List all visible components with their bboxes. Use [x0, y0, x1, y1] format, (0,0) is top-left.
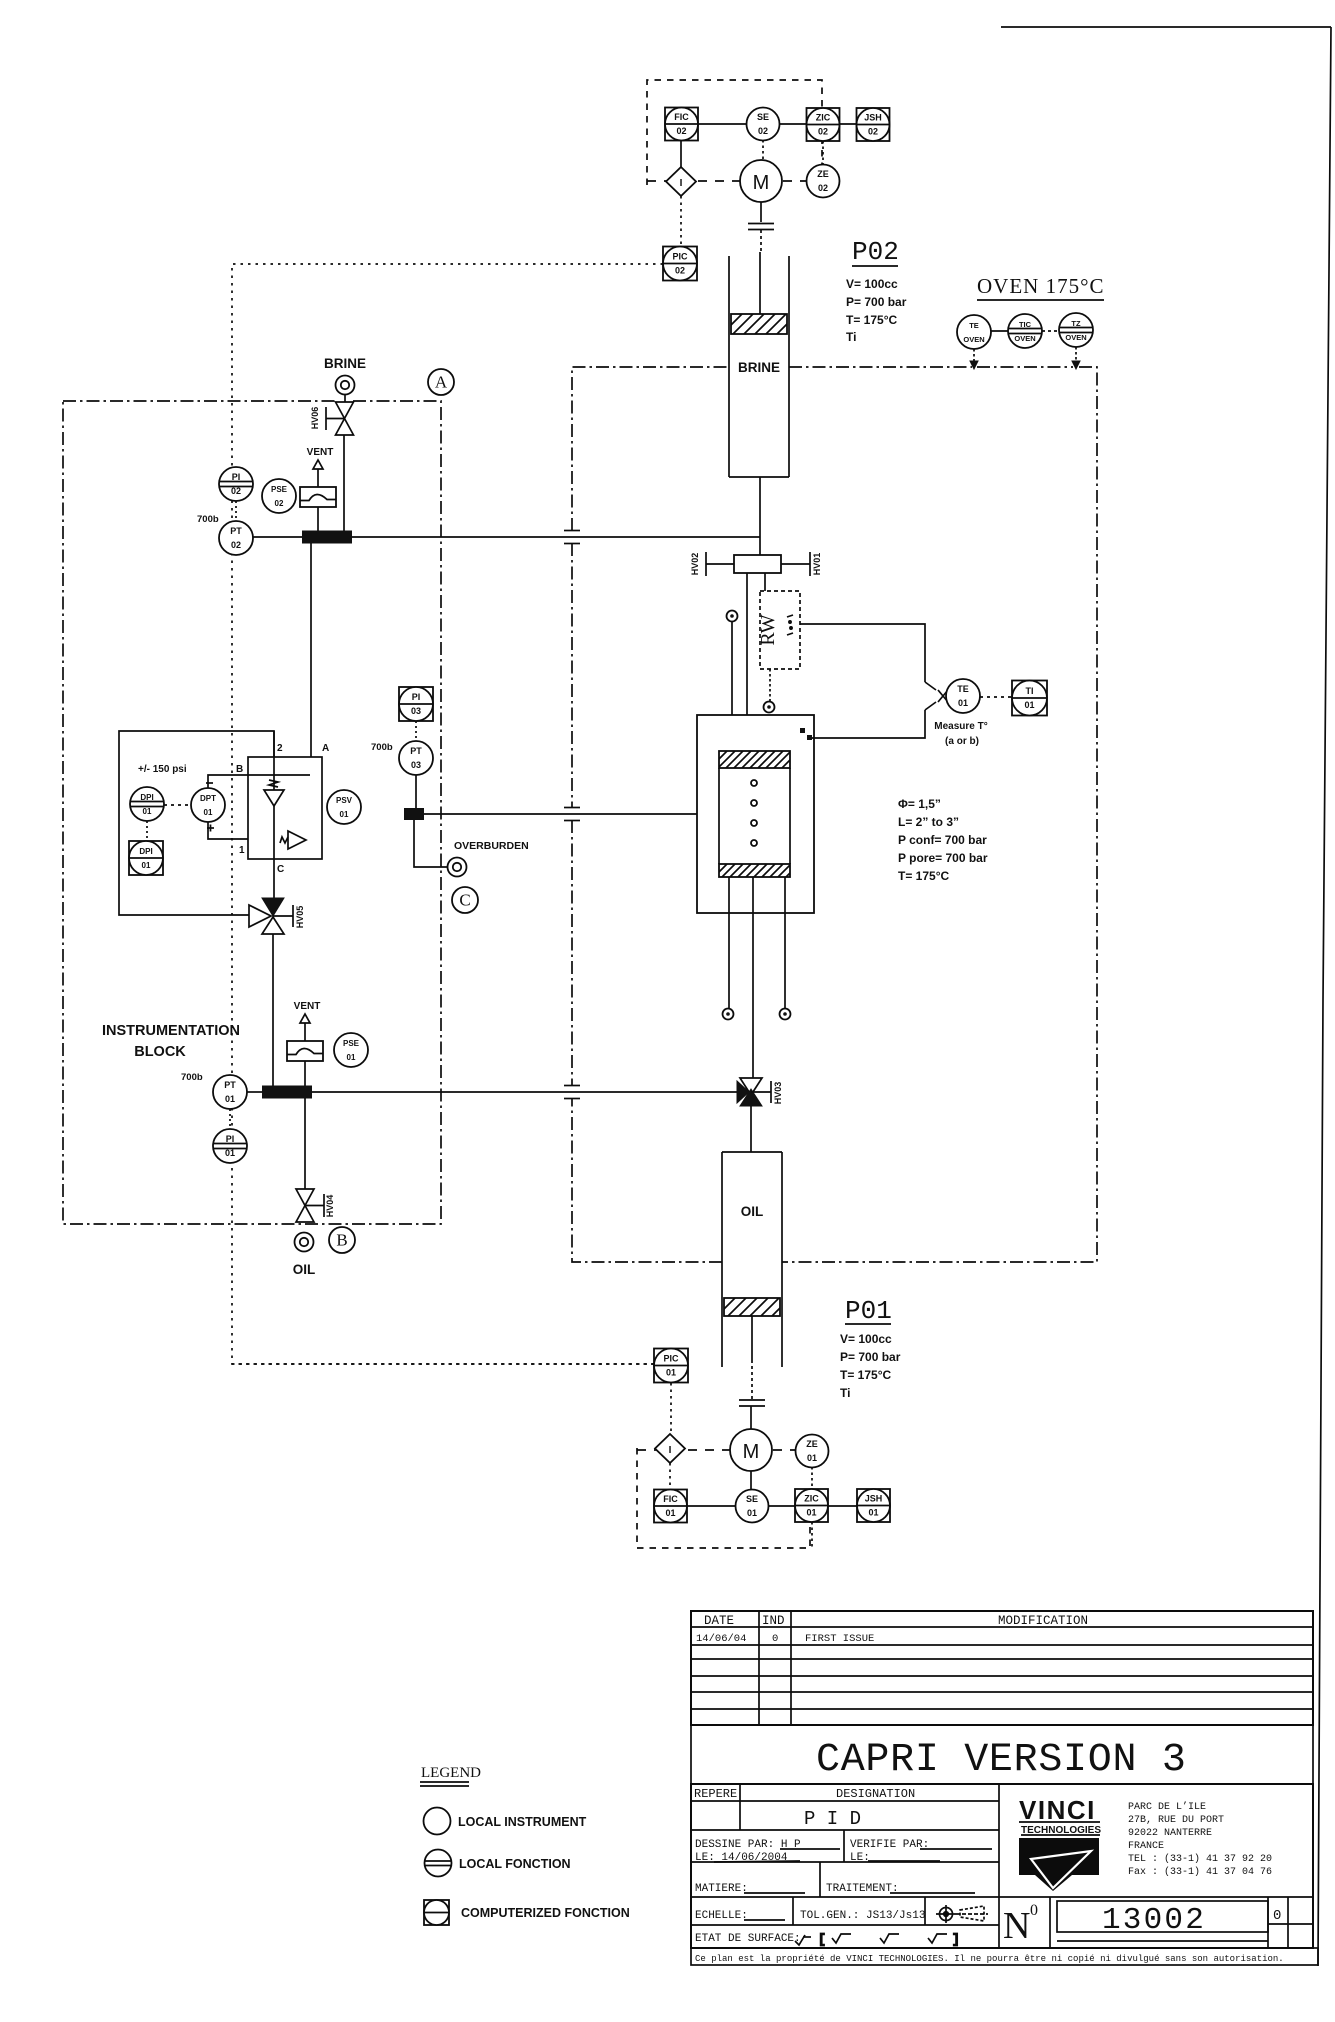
svg-text:02: 02: [231, 486, 241, 496]
svg-text:01: 01: [747, 1508, 757, 1518]
underline P02: [852, 265, 898, 267]
instrumentation block boundary (dash-dot): [63, 401, 441, 1224]
svg-text:PI: PI: [226, 1134, 235, 1144]
wire PSE02 disc to brine manifold: [317, 507, 319, 531]
wire core bottom middle to HV03: [752, 877, 754, 1078]
svg-text:M: M: [753, 172, 770, 194]
svg-text:OVEN 175°C: OVEN 175°C: [977, 274, 1104, 298]
svg-text:ECHELLE:: ECHELLE:: [695, 1910, 748, 1922]
interlock diamond I (P01): [655, 1434, 685, 1463]
property note row: [691, 1948, 1318, 1965]
wire PIC01 dotted to computer boundary: [232, 1363, 654, 1365]
piston rod P01: [751, 1316, 753, 1360]
svg-text:BLOCK: BLOCK: [134, 1044, 186, 1060]
instrument PT 02: [219, 521, 253, 555]
svg-text:TI: TI: [1026, 686, 1034, 696]
instrument ZE 02: [807, 165, 840, 198]
svg-text:]: ]: [952, 1932, 960, 1947]
interlock diamond I (P02): [666, 167, 696, 196]
svg-text:DATE: DATE: [704, 1614, 734, 1628]
handle HV01: [781, 552, 810, 576]
wire C port to HV05: [273, 859, 275, 898]
connector BRINE inlet: [336, 376, 355, 395]
thermo connector b below core: [780, 1009, 791, 1020]
svg-text:PT: PT: [230, 526, 242, 536]
svg-text:TEL : (33-1) 41 37 92 20: TEL : (33-1) 41 37 92 20: [1128, 1853, 1272, 1865]
svg-text:13002: 13002: [1102, 1903, 1206, 1938]
plus sign DPT01: [207, 825, 214, 832]
instrument PT 03: [399, 741, 433, 775]
instrument ZIC 02: [807, 108, 840, 141]
svg-text:P= 700 bar: P= 700 bar: [846, 295, 907, 309]
surface finish check marks: [795, 1932, 960, 1947]
svg-text:Ti: Ti: [840, 1386, 850, 1400]
svg-text:ETAT DE SURFACE:: ETAT DE SURFACE:: [695, 1933, 801, 1945]
svg-text:V= 100cc: V= 100cc: [840, 1332, 892, 1346]
svg-text:B: B: [336, 1231, 347, 1250]
svg-text:I: I: [669, 1445, 672, 1456]
instrument JSH 02: [857, 108, 890, 141]
wire diamond-M-ZE01 dashed line: [637, 1449, 796, 1451]
svg-text:02: 02: [675, 266, 685, 276]
svg-text:INSTRUMENTATION: INSTRUMENTATION: [102, 1023, 240, 1039]
VINCI address: [1128, 1801, 1272, 1878]
instrument SE 01: [736, 1490, 769, 1523]
svg-text:PT: PT: [224, 1080, 236, 1090]
wire thermo connector to core top: [731, 622, 733, 753]
page border right: [1318, 27, 1331, 1966]
minus sign DPT01: [206, 782, 213, 784]
svg-text:01: 01: [1024, 700, 1034, 710]
instrument PI 03: [399, 687, 433, 721]
instrument TIC OVEN: [1008, 314, 1042, 348]
revision row first issue: [696, 1633, 874, 1645]
differential pressure sub-block boundary: [119, 731, 274, 915]
svg-text:ZE: ZE: [806, 1439, 818, 1449]
motor M (P01): [730, 1429, 772, 1471]
svg-text:LEGEND: LEGEND: [421, 1765, 481, 1781]
rupture disc PSE02: [300, 487, 336, 507]
oven boundary box (dash-dot): [572, 367, 1097, 1262]
svg-text:PSE: PSE: [343, 1039, 360, 1048]
svg-text:92022 NANTERRE: 92022 NANTERRE: [1128, 1828, 1212, 1839]
core plug top cap (hatched): [702, 751, 815, 768]
piston P02 (hatched): [711, 314, 808, 334]
manifold overburden (PT03): [404, 808, 424, 820]
svg-text:700b: 700b: [197, 514, 219, 525]
page border top: [1001, 26, 1331, 28]
svg-text:M: M: [743, 1441, 760, 1463]
svg-text:P= 700 bar: P= 700 bar: [840, 1350, 901, 1364]
revision table headers: [704, 1614, 1088, 1628]
svg-text:REPERE: REPERE: [694, 1787, 737, 1801]
handle HV04: [305, 1194, 324, 1217]
svg-text:TRAITEMENT:: TRAITEMENT:: [826, 1883, 899, 1895]
wire PT01 to PI01 dotted: [229, 1109, 231, 1129]
wire FIC02 to interlock diamond: [680, 124, 682, 168]
svg-text:01: 01: [347, 1053, 356, 1062]
instrument PI 02: [219, 467, 253, 501]
wire diamond to FIC01 dotted: [669, 1463, 671, 1490]
thermo connector below RW: [764, 702, 775, 713]
svg-text:JSH: JSH: [864, 113, 882, 123]
svg-text:IND: IND: [762, 1614, 785, 1628]
wire FIC02-SE02-ZIC02-JSH02 signal line: [681, 123, 856, 125]
wire HV05 down to oil manifold: [272, 934, 274, 1086]
oven boundary crossing marker at overburden line: [564, 808, 580, 821]
svg-text:RW: RW: [757, 614, 779, 645]
svg-text:VERIFIE PAR:: VERIFIE PAR:: [850, 1839, 929, 1851]
svg-text:I: I: [680, 178, 683, 189]
valve manifold box (check valves): [248, 757, 322, 859]
label Measure T (a or b): [934, 721, 987, 747]
svg-text:FIRST ISSUE: FIRST ISSUE: [805, 1633, 874, 1645]
svg-text:OVEN: OVEN: [963, 335, 984, 344]
instrument PIC 02: [663, 247, 697, 281]
svg-text:Ti: Ti: [846, 330, 856, 344]
connector OIL inlet: [295, 1233, 314, 1252]
port b marker: [807, 735, 812, 740]
specs P02: [846, 277, 907, 344]
svg-text:C: C: [277, 864, 284, 875]
N deg box: [999, 1897, 1313, 1948]
svg-text:ZE: ZE: [817, 169, 829, 179]
wire oil manifold to HV03: [312, 1091, 737, 1093]
port a marker: [800, 728, 805, 733]
wire PIC01 to interlock diamond dotted: [670, 1383, 672, 1434]
node A circle: [428, 369, 454, 395]
svg-text:PI: PI: [412, 692, 421, 702]
svg-text:P conf= 700 bar: P conf= 700 bar: [898, 833, 987, 847]
svg-text:HV06: HV06: [310, 407, 320, 430]
svg-text:TE: TE: [957, 684, 969, 694]
computer link boundary (dotted box): [232, 264, 663, 1364]
instrument PSE 01: [334, 1033, 368, 1067]
piston rod P02 (dotted): [760, 230, 762, 252]
wire port 2 line: [273, 731, 275, 790]
instrument PSV 01: [327, 790, 361, 824]
wire port A line: [310, 543, 312, 757]
wire ZIC02 to ZE02 (dotted): [822, 141, 824, 166]
svg-text:CAPRI VERSION 3: CAPRI VERSION 3: [816, 1738, 1187, 1783]
underlines DESSINE row: [714, 1849, 992, 1862]
piston rod P01 dotted: [751, 1360, 753, 1399]
wire DPT01 1 port: [208, 822, 248, 839]
svg-text:ZIC: ZIC: [804, 1494, 819, 1504]
svg-text:BRINE: BRINE: [738, 360, 780, 375]
svg-text:Φ= 1,5”: Φ= 1,5”: [898, 797, 941, 811]
svg-text:27B, RUE DU PORT: 27B, RUE DU PORT: [1128, 1815, 1224, 1826]
wire port b to TE01 selector: [812, 710, 925, 738]
instrument DPI 01 (computerized): [129, 841, 163, 875]
svg-text:HV02: HV02: [690, 553, 700, 576]
specs P01: [840, 1332, 901, 1400]
wire brine manifold to brine cylinder line: [352, 536, 760, 538]
svg-text:TZ: TZ: [1071, 319, 1081, 328]
node C circle: [452, 887, 478, 913]
svg-text:OIL: OIL: [741, 1204, 764, 1219]
svg-text:0: 0: [1030, 1902, 1038, 1919]
svg-text:700b: 700b: [371, 742, 393, 753]
svg-text:01: 01: [666, 1368, 676, 1378]
svg-text:02: 02: [676, 126, 686, 136]
svg-text:OIL: OIL: [293, 1262, 316, 1277]
connector OVERBURDEN: [448, 858, 467, 877]
svg-text:Fax : (33-1) 41 37 04 76: Fax : (33-1) 41 37 04 76: [1128, 1866, 1272, 1878]
svg-text:P02: P02: [852, 237, 899, 267]
projection symbol: [936, 1905, 988, 1923]
wire overburden manifold down to connector: [414, 820, 448, 867]
svg-text:SE: SE: [746, 1494, 758, 1504]
svg-text:L= 2” to 3”: L= 2” to 3”: [898, 815, 959, 829]
underline LEGEND: [420, 1782, 469, 1786]
instrument TE 01: [946, 679, 980, 713]
wire HV03 to OIL cylinder: [750, 1106, 752, 1152]
wire DPT01 B port: [208, 775, 310, 788]
oven boundary crossing marker at brine line: [564, 531, 580, 544]
arrow TZ OVEN to oven boundary: [1072, 347, 1080, 369]
wire ZIC01 down dotted: [811, 1522, 813, 1548]
vent arrow (oil): [300, 1014, 310, 1023]
motor coupling P02 (capacitor symbol): [748, 224, 774, 230]
svg-text:P pore= 700 bar: P pore= 700 bar: [898, 851, 988, 865]
RW electrode marks: [787, 615, 793, 635]
instrument TZ OVEN: [1059, 313, 1093, 347]
svg-text:HV03: HV03: [773, 1082, 783, 1105]
svg-text:01: 01: [225, 1094, 235, 1104]
wire diamond-M-ZE02 dashed line: [647, 180, 806, 182]
svg-text:PIC: PIC: [663, 1354, 679, 1364]
wire DPI01 to DPI01 square dotted: [146, 821, 148, 841]
thermo connector a below core: [723, 1009, 734, 1020]
svg-text:01: 01: [340, 810, 349, 819]
pump P01 control dashed box: [637, 1448, 810, 1548]
svg-text:Measure T°: Measure T°: [934, 721, 987, 732]
row ECHELLE/TOL.GEN: [695, 1910, 925, 1922]
wire oil manifold down to HV04: [304, 1098, 306, 1189]
svg-text:JSH: JSH: [865, 1494, 883, 1504]
svg-text:LOCAL FONCTION: LOCAL FONCTION: [459, 1857, 571, 1871]
row MATIERE/TRAITEMENT: [695, 1883, 899, 1895]
svg-text:1: 1: [239, 845, 245, 856]
wire valve block to RW: [764, 573, 766, 591]
svg-text:OVERBURDEN: OVERBURDEN: [454, 840, 529, 852]
vent arrow (brine): [313, 460, 323, 469]
svg-text:01: 01: [868, 1508, 878, 1518]
underline P01: [845, 1323, 891, 1325]
handle HV03: [751, 1081, 771, 1103]
svg-text:01: 01: [665, 1508, 675, 1518]
wire core bottom right to connector b: [784, 877, 786, 1008]
wire TE OVEN to TIC OVEN dash: [991, 330, 1008, 332]
arrow TE OVEN to oven boundary: [970, 349, 978, 369]
wire PT01 to oil manifold: [247, 1091, 262, 1093]
svg-text:02: 02: [818, 183, 828, 193]
wire motor M02 to coupling: [760, 202, 762, 222]
wire core bottom left to connector a: [728, 877, 730, 1008]
svg-text:VENT: VENT: [307, 447, 334, 458]
svg-text:Ce plan est la propriété de VI: Ce plan est la propriété de VINCI TECHNO…: [695, 1954, 1284, 1964]
svg-text:T= 175°C: T= 175°C: [840, 1368, 891, 1382]
wire HV06 to brine manifold: [343, 435, 345, 531]
svg-text:VINCI: VINCI: [1019, 1795, 1096, 1825]
wire valve block to core holder (brine side): [746, 573, 748, 753]
svg-text:OVEN: OVEN: [1065, 333, 1086, 342]
svg-text:FRANCE: FRANCE: [1128, 1841, 1164, 1852]
wire coupling to motor M01: [750, 1406, 752, 1429]
svg-text:01: 01: [204, 808, 213, 817]
svg-text:TE: TE: [969, 321, 979, 330]
svg-text:A: A: [322, 743, 329, 754]
wire TIC OVEN to TZ OVEN dash: [1042, 330, 1059, 332]
manifold brine (PT02): [302, 531, 352, 544]
instrument ZE 01: [796, 1435, 829, 1468]
svg-text:DESIGNATION: DESIGNATION: [836, 1787, 915, 1801]
svg-text:[: [: [818, 1932, 826, 1947]
svg-text:02: 02: [868, 127, 878, 137]
svg-text:01: 01: [807, 1453, 817, 1463]
label INSTRUMENTATION BLOCK: [102, 1023, 240, 1060]
svg-text:SE: SE: [757, 112, 769, 122]
svg-text:PARC DE L’ILE: PARC DE L’ILE: [1128, 1801, 1206, 1813]
instrument PIC 01: [654, 1349, 688, 1383]
instrument DPT 01: [191, 788, 225, 822]
wire interlock diamond to PIC02 (dotted): [680, 196, 682, 247]
instrument ZIC 01: [795, 1489, 828, 1522]
instrument SE 02: [747, 108, 780, 141]
svg-text:02: 02: [275, 499, 284, 508]
svg-text:PSV: PSV: [336, 796, 353, 805]
oven boundary crossing marker at oil line: [564, 1086, 580, 1099]
handle HV06: [326, 407, 345, 430]
handle HV02: [706, 552, 734, 576]
wire PT03 to overburden manifold: [415, 775, 417, 808]
wire PSE01 disc to oil manifold: [304, 1061, 306, 1086]
svg-text:01: 01: [143, 807, 152, 816]
wire DPI01-DPT01 dash: [164, 804, 191, 806]
manifold oil (PT01): [262, 1086, 312, 1099]
instrument FIC 01: [654, 1490, 687, 1523]
svg-text:DPI: DPI: [139, 847, 152, 856]
selector diagonals to TE01: [925, 682, 948, 710]
wire RW right to TE01 selector: [800, 624, 925, 682]
wire PI02 to PT02 dotted: [235, 501, 237, 521]
wire PI03 to PT03 dotted: [415, 721, 417, 741]
handle HV05: [273, 905, 293, 927]
svg-text:HV01: HV01: [812, 553, 822, 576]
labels REPERE DESIGNATION: [694, 1787, 915, 1801]
valve HV06: [336, 402, 354, 435]
svg-text:HV05: HV05: [295, 906, 305, 929]
relief valve triangle (right): [288, 831, 306, 849]
instrument PT 01: [213, 1075, 247, 1109]
svg-text:A: A: [435, 373, 448, 392]
svg-text:P01: P01: [845, 1296, 892, 1326]
thermo connector above core (brine line): [727, 611, 738, 622]
pump cylinder P02 BRINE: [729, 256, 789, 477]
check valve down triangle: [264, 790, 284, 806]
wire M01 to SE01 dotted: [750, 1471, 752, 1490]
svg-text:FIC: FIC: [674, 112, 689, 122]
piston P01 (hatched): [706, 1298, 801, 1316]
legend local instrument symbol: [424, 1808, 451, 1835]
wire TE01 to TI01 dash: [980, 696, 1012, 698]
svg-text:PI: PI: [232, 472, 241, 482]
svg-text:(a or b): (a or b): [945, 736, 979, 747]
svg-text:03: 03: [411, 760, 421, 770]
wire PT02 to brine manifold: [253, 536, 302, 538]
motor M (P02): [740, 160, 782, 202]
title band CAPRI VERSION 3: [691, 1725, 1313, 1784]
svg-text:LE:: LE:: [850, 1852, 870, 1864]
svg-text:FIC: FIC: [663, 1494, 678, 1504]
svg-text:01: 01: [806, 1508, 816, 1518]
instrument PSE 02: [262, 479, 296, 513]
svg-text:C: C: [459, 891, 470, 910]
piston rod P02: [759, 252, 761, 315]
svg-text:700b: 700b: [181, 1072, 203, 1083]
instrument TI 01: [1012, 681, 1047, 716]
wire ZE01 to ZIC01 dotted: [811, 1467, 813, 1489]
designation table: [691, 1784, 1313, 1948]
svg-text:MATIERE:: MATIERE:: [695, 1883, 748, 1895]
wire BRINE connector to HV06: [344, 394, 346, 402]
wire vent arrow to PSE02 disc: [317, 469, 319, 488]
svg-text:PT: PT: [410, 746, 422, 756]
svg-text:01: 01: [225, 1148, 235, 1158]
svg-text:02: 02: [758, 126, 768, 136]
VINCI logo black box with triangle: [1019, 1838, 1099, 1891]
svg-text:02: 02: [818, 127, 828, 137]
wire BRINE cylinder to valve block: [759, 477, 761, 555]
svg-text:BRINE: BRINE: [324, 356, 366, 371]
rupture disc PSE01: [287, 1041, 323, 1061]
revision table: [691, 1611, 1313, 1725]
valve HV05 (3-way): [249, 898, 284, 934]
svg-text:2: 2: [277, 743, 283, 754]
instrument FIC 02: [665, 108, 698, 141]
svg-text:TIC: TIC: [1019, 320, 1032, 329]
svg-text:V= 100cc: V= 100cc: [846, 277, 898, 291]
svg-text:VENT: VENT: [294, 1001, 321, 1012]
underline OVEN: [977, 299, 1104, 301]
svg-text:PIC: PIC: [672, 252, 688, 262]
svg-text:03: 03: [411, 706, 421, 716]
svg-text:01: 01: [142, 861, 151, 870]
svg-text:01: 01: [958, 698, 968, 708]
instrument PI 01: [213, 1129, 247, 1163]
instrument TE OVEN: [957, 315, 991, 349]
svg-text:LOCAL INSTRUMENT: LOCAL INSTRUMENT: [458, 1815, 587, 1829]
node B circle: [329, 1227, 355, 1253]
svg-text:HV04: HV04: [325, 1195, 335, 1218]
wire check valve to C: [273, 806, 275, 859]
motor coupling P01 (capacitor symbol): [739, 1400, 765, 1406]
valve HV03 (3-way): [737, 1078, 762, 1106]
relief valve spring: [280, 837, 288, 843]
core holder body: [697, 715, 814, 913]
instrument JSH 01: [857, 1489, 890, 1522]
svg-text:COMPUTERIZED FONCTION: COMPUTERIZED FONCTION: [461, 1906, 630, 1920]
svg-text:TOL.GEN.: JS13/Js13: TOL.GEN.: JS13/Js13: [800, 1910, 925, 1922]
core plug bottom cap (hatched): [706, 864, 807, 877]
svg-text:B: B: [236, 764, 243, 775]
svg-text:P I D: P I D: [804, 1808, 861, 1830]
core specs text: [898, 797, 988, 883]
check valve spring (top): [269, 780, 278, 787]
svg-text:14/06/04: 14/06/04: [696, 1633, 746, 1645]
svg-text:DPI: DPI: [140, 793, 153, 802]
